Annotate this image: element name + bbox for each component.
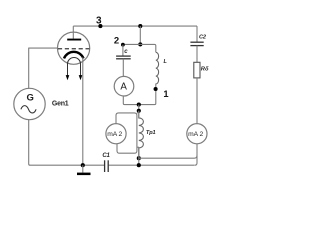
wire tube cathode lead down to ground rail <box>82 57 84 165</box>
wire coil bottom dots vertical <box>138 147 140 165</box>
inductor L <box>156 52 159 84</box>
wire node 2 to branch junction <box>123 43 140 45</box>
tube heater left lead <box>67 64 69 76</box>
wire tube plate lead <box>72 26 74 39</box>
wire inductor L bottom through node 1 <box>139 84 156 105</box>
wire C2 to resistor <box>196 46 198 63</box>
wire generator bottom to bottom-left corner <box>29 120 30 166</box>
capacitor C1 right plate <box>107 160 109 172</box>
junction dot loop top <box>137 109 141 113</box>
junction dot node 2 level <box>138 42 142 46</box>
svg-text:A: A <box>120 82 127 93</box>
wire node 2 to capacitor c <box>122 45 124 56</box>
wire left vertical grid corner down to generator top <box>28 48 30 89</box>
node 2 dot <box>121 43 125 47</box>
node 3 dot <box>98 24 102 28</box>
junction dot coil bottom / rail <box>137 163 141 167</box>
wire to right milliammeter bottom <box>139 155 197 158</box>
tube heater right arrow <box>79 75 83 80</box>
tube cathode arc <box>64 52 84 59</box>
wire top rail from tube plate to right branch <box>73 25 197 27</box>
junction dot coil bottom / right meter branch <box>137 156 141 160</box>
capacitor C2 top plate <box>190 41 203 43</box>
tube grid (dashed) <box>58 48 90 50</box>
resistor Rδ <box>194 62 200 78</box>
svg-text:Rδ: Rδ <box>201 67 209 73</box>
transformer coil Tp1 <box>139 111 144 158</box>
capacitor c top plate <box>116 55 131 57</box>
wire branch from top rail down to node 2 level <box>139 26 141 44</box>
capacitor C1 left plate <box>104 160 106 172</box>
tube heater arch <box>68 58 81 64</box>
capacitor c bottom plate <box>116 58 131 60</box>
milliammeter mA2 left <box>106 124 126 144</box>
junction dot A/node1 <box>137 103 141 107</box>
wire grid lead from left corner to tube <box>29 47 58 49</box>
capacitor C2 bottom plate <box>190 45 203 47</box>
node 1 dot <box>154 87 158 91</box>
ground <box>82 165 84 172</box>
junction dot top rail branch <box>138 24 142 28</box>
svg-text:G: G <box>27 93 34 104</box>
tube heater right lead <box>80 64 82 76</box>
svg-text:Gen1: Gen1 <box>52 100 69 107</box>
wire loop corner connector to junction <box>137 111 139 113</box>
svg-text:C2: C2 <box>199 34 207 40</box>
ammeter A <box>114 76 134 96</box>
wire capacitor c to ammeter A <box>122 59 124 77</box>
wire mA2 left loop (rounded rectangle) <box>116 113 137 153</box>
junction dot ground <box>81 163 85 167</box>
wire junction to junction <box>138 105 140 111</box>
vacuum tube envelope <box>58 32 90 64</box>
svg-text:1: 1 <box>163 89 168 99</box>
tube anode plate bar <box>67 39 81 41</box>
generator sine wave <box>21 106 36 113</box>
wire bottom rail right of C1 <box>109 164 195 166</box>
svg-text:2: 2 <box>114 36 119 47</box>
svg-text:mA 2: mA 2 <box>107 131 122 138</box>
svg-text:3: 3 <box>96 15 102 26</box>
wire bottom rail <box>30 164 105 166</box>
wire branch junction to inductor L top <box>140 44 156 52</box>
tube heater left arrow <box>66 75 70 80</box>
capacitor C2 branch wire from top rail <box>196 26 198 42</box>
svg-text:Tp1: Tp1 <box>146 130 156 136</box>
milliammeter mA2 right <box>187 124 207 144</box>
wire ammeter A bottom to junction <box>123 96 139 105</box>
wire resistor to right milliammeter <box>196 78 198 124</box>
wire right milliammeter bottom to rail <box>195 144 197 165</box>
svg-text:C1: C1 <box>102 153 110 159</box>
svg-text:mA 2: mA 2 <box>188 131 203 138</box>
generator Gen1 <box>14 88 45 119</box>
wire loop stub to coil bottom <box>137 146 139 148</box>
